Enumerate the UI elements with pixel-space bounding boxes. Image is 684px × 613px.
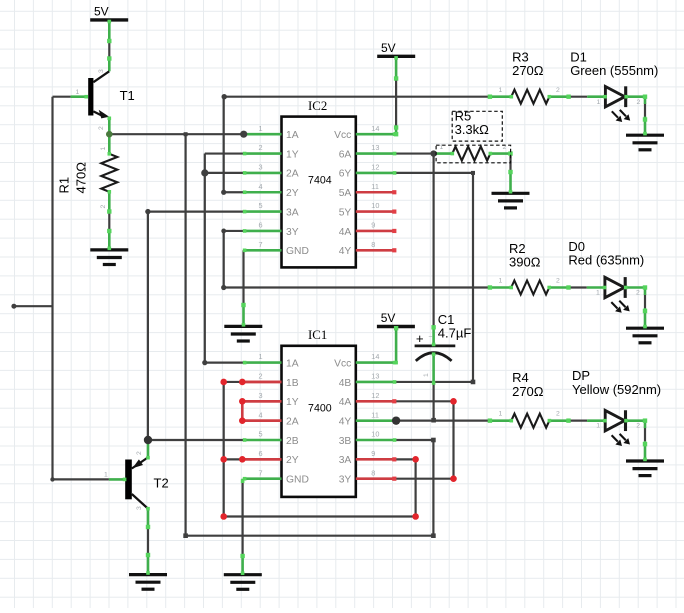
svg-text:2Y: 2Y xyxy=(286,188,299,199)
svg-text:GND: GND xyxy=(286,475,309,486)
svg-text:4Y: 4Y xyxy=(339,416,352,427)
svg-text:2: 2 xyxy=(556,87,560,94)
svg-text:12: 12 xyxy=(371,163,379,172)
svg-text:5V: 5V xyxy=(381,41,396,55)
svg-text:390Ω: 390Ω xyxy=(509,255,541,270)
svg-text:2: 2 xyxy=(636,290,640,297)
svg-text:9: 9 xyxy=(371,221,375,230)
svg-text:7: 7 xyxy=(258,468,262,477)
svg-text:3B: 3B xyxy=(339,436,352,447)
svg-text:2Y: 2Y xyxy=(286,455,299,466)
svg-text:~: ~ xyxy=(429,334,433,341)
svg-text:4: 4 xyxy=(258,410,262,419)
svg-text:DP: DP xyxy=(572,368,590,383)
svg-text:11: 11 xyxy=(371,410,379,419)
svg-text:7: 7 xyxy=(258,240,262,249)
svg-text:5: 5 xyxy=(258,430,262,439)
svg-text:4: 4 xyxy=(258,182,262,191)
svg-text:GND: GND xyxy=(286,246,309,257)
svg-text:5Y: 5Y xyxy=(339,207,352,218)
svg-text:3.3kΩ: 3.3kΩ xyxy=(455,122,490,137)
svg-text:3: 3 xyxy=(98,69,105,73)
svg-text:14: 14 xyxy=(371,124,379,133)
svg-text:13: 13 xyxy=(371,372,379,381)
svg-text:270Ω: 270Ω xyxy=(512,63,544,78)
svg-text:IC1: IC1 xyxy=(308,328,327,342)
svg-text:3: 3 xyxy=(136,506,143,510)
svg-text:1: 1 xyxy=(258,352,262,361)
svg-text:1: 1 xyxy=(258,124,262,133)
svg-text:1Y: 1Y xyxy=(286,149,299,160)
svg-text:1Y: 1Y xyxy=(286,397,299,408)
svg-text:1: 1 xyxy=(76,89,80,96)
svg-text:2: 2 xyxy=(556,411,560,418)
svg-text:1: 1 xyxy=(596,423,600,430)
svg-text:1A: 1A xyxy=(286,130,299,141)
svg-text:6: 6 xyxy=(258,449,262,458)
svg-text:4A: 4A xyxy=(339,397,352,408)
svg-text:4.7µF: 4.7µF xyxy=(438,326,472,341)
svg-text:5: 5 xyxy=(258,201,262,210)
svg-text:9: 9 xyxy=(371,449,375,458)
svg-text:R1: R1 xyxy=(57,177,72,194)
svg-text:2: 2 xyxy=(100,205,107,209)
svg-text:Vcc: Vcc xyxy=(334,358,351,369)
svg-text:6Y: 6Y xyxy=(339,169,352,180)
svg-text:10: 10 xyxy=(371,430,379,439)
svg-text:Red (635nm): Red (635nm) xyxy=(568,253,644,268)
svg-text:2: 2 xyxy=(258,372,262,381)
svg-text:2: 2 xyxy=(258,143,262,152)
svg-text:Green (555nm): Green (555nm) xyxy=(570,63,658,78)
svg-text:1: 1 xyxy=(499,87,503,94)
svg-text:1B: 1B xyxy=(286,378,299,389)
svg-text:5V: 5V xyxy=(94,5,109,19)
svg-text:1: 1 xyxy=(423,373,430,377)
svg-text:1: 1 xyxy=(499,278,503,285)
svg-text:2: 2 xyxy=(637,99,641,106)
svg-text:12: 12 xyxy=(371,391,379,400)
svg-text:1: 1 xyxy=(597,99,601,106)
svg-text:1A: 1A xyxy=(286,358,299,369)
svg-text:4Y: 4Y xyxy=(339,246,352,257)
svg-text:7400: 7400 xyxy=(308,403,332,415)
svg-text:+: + xyxy=(416,331,424,346)
svg-text:4A: 4A xyxy=(339,227,352,238)
svg-text:T1: T1 xyxy=(120,88,135,103)
svg-text:11: 11 xyxy=(371,182,379,191)
svg-text:6: 6 xyxy=(258,221,262,230)
svg-text:14: 14 xyxy=(371,352,379,361)
svg-text:8: 8 xyxy=(371,468,375,477)
svg-text:5A: 5A xyxy=(339,188,352,199)
svg-text:T2: T2 xyxy=(154,475,169,490)
svg-text:2: 2 xyxy=(556,278,560,285)
svg-text:13: 13 xyxy=(371,143,379,152)
svg-text:2: 2 xyxy=(136,451,143,455)
svg-text:3Y: 3Y xyxy=(339,475,352,486)
svg-text:3A: 3A xyxy=(286,207,299,218)
svg-text:1: 1 xyxy=(499,411,503,418)
svg-text:8: 8 xyxy=(371,240,375,249)
svg-text:470Ω: 470Ω xyxy=(74,162,89,194)
svg-text:2B: 2B xyxy=(286,436,299,447)
svg-text:2: 2 xyxy=(98,126,105,130)
svg-text:2: 2 xyxy=(636,423,640,430)
svg-text:2A: 2A xyxy=(286,416,299,427)
svg-text:3: 3 xyxy=(258,391,262,400)
svg-text:Yellow (592nm): Yellow (592nm) xyxy=(572,382,661,397)
svg-text:IC2: IC2 xyxy=(308,99,327,113)
svg-text:3A: 3A xyxy=(339,455,352,466)
svg-text:1: 1 xyxy=(104,472,108,479)
svg-text:3: 3 xyxy=(258,163,262,172)
svg-text:1: 1 xyxy=(596,290,600,297)
svg-text:7404: 7404 xyxy=(308,174,332,186)
svg-text:Vcc: Vcc xyxy=(334,130,351,141)
svg-text:10: 10 xyxy=(371,201,379,210)
svg-text:1: 1 xyxy=(100,147,107,151)
svg-text:2A: 2A xyxy=(286,169,299,180)
svg-text:6A: 6A xyxy=(339,149,352,160)
svg-text:3Y: 3Y xyxy=(286,227,299,238)
svg-text:4B: 4B xyxy=(339,378,352,389)
svg-text:270Ω: 270Ω xyxy=(512,384,544,399)
svg-text:5V: 5V xyxy=(381,311,396,325)
